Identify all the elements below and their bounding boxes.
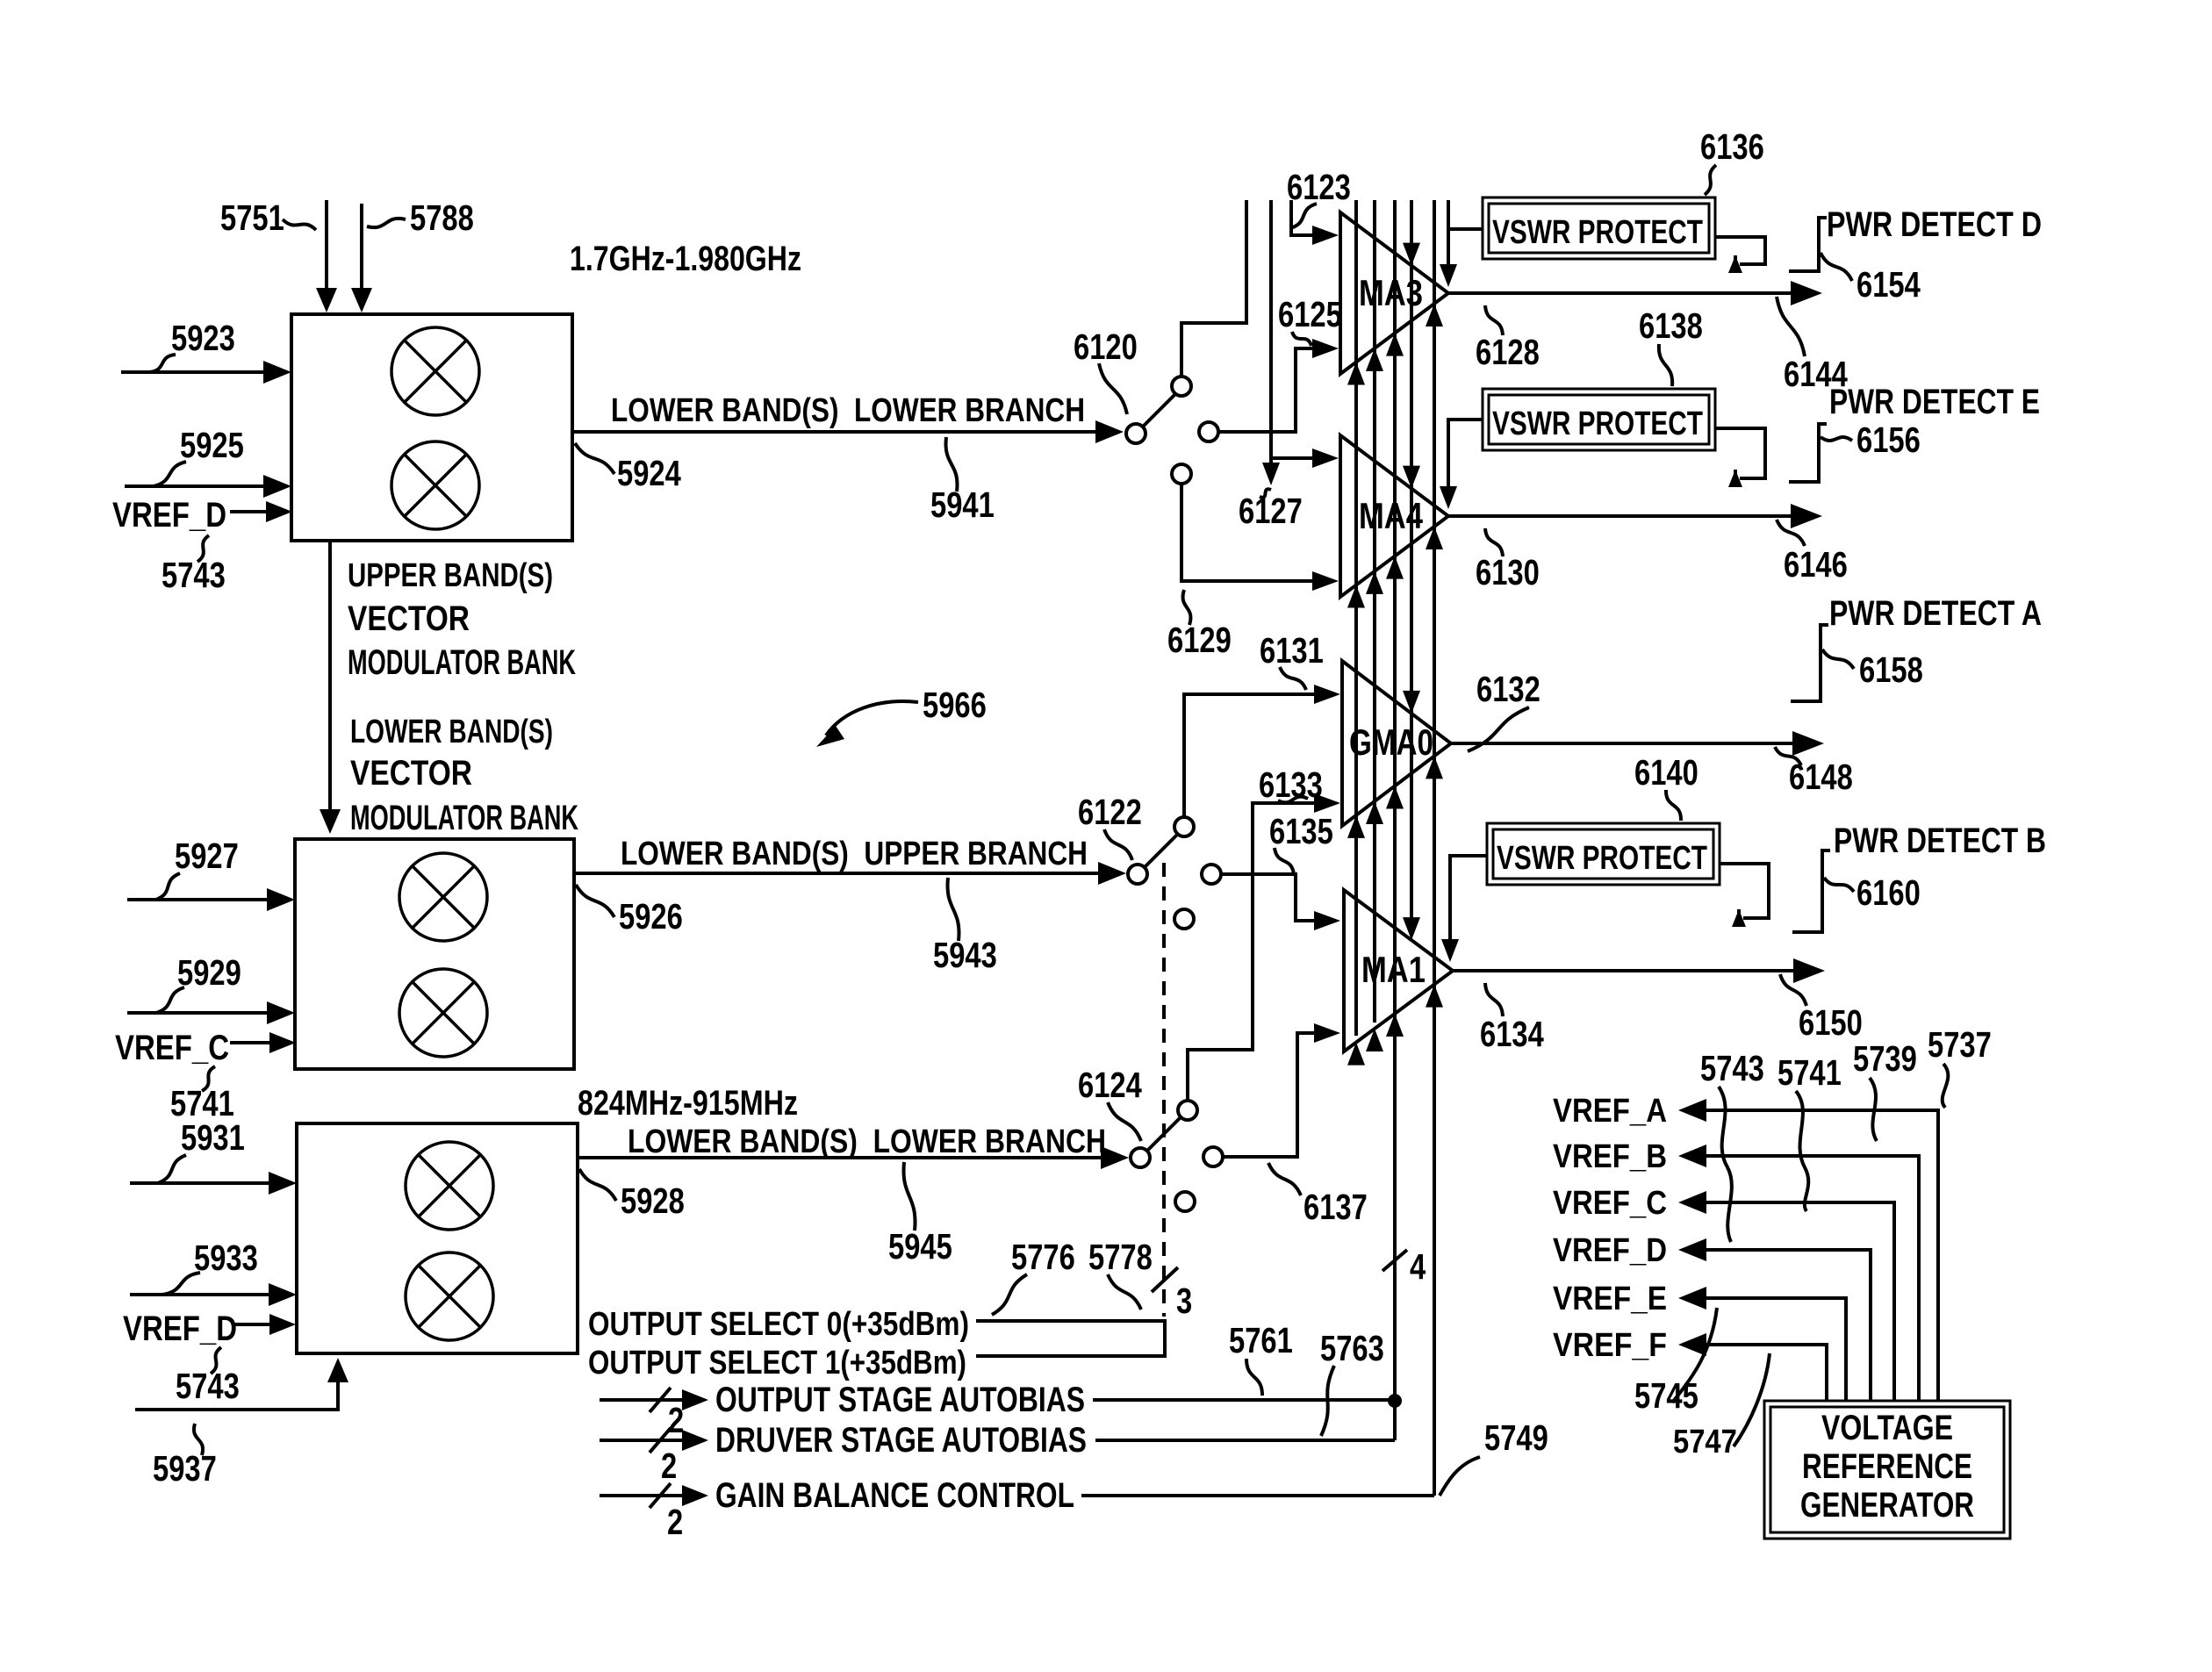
wire switch 6124 upper throw to GMA0 input 2 [1188,793,1340,1101]
block VSWR PROTECT 6136 [1483,197,1715,259]
label 5941 [930,437,995,525]
label 5926 [576,885,683,936]
svg-text:5743: 5743 [1700,1048,1764,1088]
svg-text:5937: 5937 [153,1448,217,1489]
label 6148 [1775,747,1853,797]
svg-text:5776: 5776 [1011,1237,1075,1277]
svg-text:5737: 5737 [1928,1024,1992,1065]
svg-text:6160: 6160 [1856,872,1921,913]
block 5922 UPPER BAND(S) VECTOR MODULATOR BANK [291,314,572,541]
label 5749 [1440,1417,1548,1496]
wire VSWR PROTECT 6140 output loop [1720,864,1769,927]
wire VREF_D input [230,501,292,522]
svg-text:6137: 6137 [1303,1187,1368,1227]
svg-text:6132: 6132 [1476,669,1540,709]
label 5745 [1634,1308,1717,1416]
svg-text:MODULATOR BANK: MODULATOR BANK [348,643,576,682]
switch 6120 pole circle [1126,424,1145,443]
label 5925 [154,425,244,486]
svg-text:6140: 6140 [1634,752,1698,793]
label 5931 [158,1117,245,1183]
wire VSWR PROTECT 6136 output loop [1715,237,1765,273]
svg-text:PWR DETECT D: PWR DETECT D [1827,205,2042,244]
svg-text:5927: 5927 [175,836,239,876]
svg-text:6138: 6138 [1639,305,1703,346]
label 5741 [170,1066,234,1123]
svg-text:6154: 6154 [1856,264,1921,305]
svg-text:5788: 5788 [410,197,474,238]
svg-text:5741: 5741 [1777,1052,1842,1093]
symbol PWR DETECT B (step waveform) [1792,850,1830,932]
svg-text:5943: 5943 [933,935,997,975]
label UPPER BAND(S) VECTOR MODULATOR BANK [348,557,576,682]
mixer (lower) in middle bank [399,969,487,1057]
svg-text:GAIN BALANCE CONTROL: GAIN BALANCE CONTROL [715,1476,1074,1515]
svg-text:3: 3 [1176,1281,1192,1321]
switch 6120 blade (diagonal) [1143,393,1176,427]
label 6160 [1824,872,1921,913]
svg-text:1.7GHz-1.980GHz: 1.7GHz-1.980GHz [570,240,801,278]
svg-text:6133: 6133 [1259,764,1323,805]
wire MA3 input 1 from bus [1291,200,1339,245]
svg-text:5749: 5749 [1484,1417,1548,1458]
wire GMA0 output [1451,731,1824,756]
label 2 (gain balance) [667,1502,683,1542]
label VREF_D [1553,1232,1667,1269]
svg-text:824MHz-915MHz: 824MHz-915MHz [578,1084,798,1123]
label 5945 [888,1162,952,1267]
switch 6120 upper throw circle [1172,377,1191,396]
label OUTPUT STAGE AUTOBIAS [715,1381,1085,1419]
label 5778 [1088,1237,1153,1310]
bus slash 4 [1382,1250,1407,1271]
label 5924 [575,443,681,493]
switch 6120 lower throw circle [1172,464,1191,484]
label VREF_D [112,496,226,535]
label 5751 [220,197,316,238]
amplifier GMA0 [1342,661,1451,826]
label 6130 [1476,528,1540,592]
label VREF_E [1553,1281,1667,1317]
wire VREF_D input (bottom bank) [235,1314,296,1335]
svg-text:5941: 5941 [930,484,995,525]
label 5966 (figure pointer) [816,685,987,747]
svg-text:2: 2 [661,1446,677,1486]
wire VREF_F from voltage reference generator [1678,1333,1827,1401]
label 6138 [1639,305,1703,386]
svg-text:VREF_D: VREF_D [123,1310,237,1348]
label 5743 (vref conductor) [1700,1048,1764,1242]
svg-text:MA3: MA3 [1359,272,1423,313]
wire switch 6122 upper throw to GMA0 input 1 [1184,685,1340,817]
switch 6122 output circle [1202,865,1221,884]
wire input 5931 [130,1172,297,1195]
label 5761 [1229,1320,1293,1396]
label 5937 [153,1424,217,1489]
wire switch 6122 output to MA1 input 1 [1221,874,1340,930]
svg-text:VSWR PROTECT: VSWR PROTECT [1492,405,1703,442]
label 1.7GHz-1.980GHz [570,240,801,278]
wire VREF_A from voltage reference generator [1678,1099,1938,1401]
label 6122 [1078,792,1142,860]
bus wire (output stage autobias B) with arrows into amp bottoms [1366,200,1383,1051]
wire MA4 output [1448,504,1822,528]
svg-text:5933: 5933 [194,1238,258,1278]
label 6127 [1239,489,1303,531]
wire GAIN BALANCE CONTROL input (2-wire) [600,1483,708,1508]
label 5923 [149,318,235,372]
amplifier MA4 [1340,435,1448,597]
label 824MHz-915MHz [578,1084,798,1123]
label VREF_B [1553,1138,1667,1175]
wire LOWER BAND(S) LOWER BRANCH (bank3 to switch 6124) [578,1146,1129,1169]
wire OUTPUT STAGE AUTOBIAS to bus junction [1093,1394,1402,1408]
wire input 5923 [121,361,291,384]
label 2 (druver stage) [661,1446,677,1486]
svg-text:PWR DETECT E: PWR DETECT E [1829,383,2040,421]
label 5739 (vref conductor) [1853,1038,1917,1141]
label OUTPUT SELECT 0(+35dBm) [588,1306,969,1343]
input 5751 (down arrow into bank top) [316,200,337,312]
label 6156 [1821,420,1921,460]
wire VSWR PROTECT 6140 tap on MA1 output [1441,856,1487,962]
svg-text:6150: 6150 [1799,1002,1863,1043]
svg-text:LOWER BAND(S): LOWER BAND(S) [350,714,553,750]
label DRUVER STAGE AUTOBIAS [715,1421,1087,1460]
svg-text:6127: 6127 [1239,491,1303,531]
svg-text:5743: 5743 [162,555,226,595]
svg-text:MODULATOR BANK: MODULATOR BANK [350,799,578,837]
label PWR DETECT A [1829,594,2042,633]
svg-text:6156: 6156 [1856,420,1921,460]
label PWR DETECT D [1827,205,2042,244]
svg-text:VECTOR: VECTOR [350,754,472,793]
wire switch 6120 upper throw to bus [1181,200,1246,377]
switch 6124 blade (diagonal) [1147,1117,1181,1151]
wire VREF_D from voltage reference generator [1678,1238,1871,1401]
svg-text:MA4: MA4 [1359,495,1424,536]
label PWR DETECT B [1834,822,2046,860]
label VREF_C [115,1029,229,1067]
label 6132 [1468,669,1540,751]
svg-text:5928: 5928 [621,1180,685,1221]
block VOLTAGE REFERENCE GENERATOR [1764,1401,2010,1539]
svg-text:LOWER BAND(S) LOWER BRANCH: LOWER BAND(S) LOWER BRANCH [628,1123,1106,1160]
wire 5937 input (up arrow into bank bottom) [135,1358,348,1410]
wire input 5925 [125,475,291,498]
label LOWER BAND(S) LOWER BRANCH (bottom) [628,1123,1106,1160]
svg-text:6124: 6124 [1078,1065,1142,1105]
label LOWER BAND(S) UPPER BRANCH [621,836,1088,872]
symbol PWR DETECT E (step waveform) [1789,424,1827,482]
switch 6124 output circle [1203,1147,1223,1166]
svg-text:2: 2 [667,1502,683,1542]
label 6140 [1634,752,1698,821]
label 6125 [1278,294,1342,346]
symbol PWR DETECT D (step waveform) [1789,218,1827,271]
input 5788 (down arrow into bank top) [351,204,372,312]
wire input 5929 [127,1001,295,1024]
label 6129 [1167,590,1232,660]
svg-text:DRUVER STAGE AUTOBIAS: DRUVER STAGE AUTOBIAS [715,1421,1087,1460]
dashed control line for switches (3-wire) [1162,863,1166,1317]
svg-text:6135: 6135 [1269,811,1333,851]
svg-text:5739: 5739 [1853,1038,1917,1079]
svg-text:LOWER BAND(S) UPPER BRANCH: LOWER BAND(S) UPPER BRANCH [621,836,1088,872]
svg-text:UPPER BAND(S): UPPER BAND(S) [348,557,553,594]
svg-text:VREF_F: VREF_F [1553,1327,1667,1364]
svg-text:OUTPUT SELECT 1(+35dBm): OUTPUT SELECT 1(+35dBm) [588,1345,966,1381]
gain balance control bus (vertical) with arrows under outputs [1426,200,1443,1496]
bus slash 3 [1152,1267,1178,1292]
wire VREF_C from voltage reference generator [1678,1191,1894,1401]
wire output select bus [976,1321,1165,1356]
label 4 [1410,1246,1426,1287]
wire MA3 output [1448,281,1822,305]
label 6154 [1821,253,1921,305]
svg-text:5924: 5924 [617,453,681,493]
label 6135 [1269,811,1333,874]
svg-text:OUTPUT STAGE AUTOBIAS: OUTPUT STAGE AUTOBIAS [715,1381,1085,1419]
label VREF_D (bottom) [123,1310,237,1348]
svg-text:REFERENCE: REFERENCE [1802,1447,1972,1486]
svg-text:VREF_C: VREF_C [1553,1185,1667,1222]
svg-text:6129: 6129 [1167,620,1232,660]
label 6144 [1777,297,1848,394]
amplifier MA3 [1340,212,1448,374]
block VSWR PROTECT 6140 [1487,823,1720,885]
svg-text:6130: 6130 [1476,552,1540,592]
svg-text:5945: 5945 [888,1226,952,1267]
label 6150 [1780,974,1863,1043]
label 6123 [1287,167,1351,228]
label 5929 [156,952,241,1013]
svg-text:6136: 6136 [1700,126,1764,167]
label 5737 (vref conductor) [1928,1024,1992,1108]
wire VSWR PROTECT 6138 output loop [1715,428,1765,487]
svg-text:VREF_C: VREF_C [115,1029,229,1067]
svg-text:6158: 6158 [1859,649,1923,690]
bus wire (output stage autobias A) with arrows into amp bottoms [1347,200,1365,1066]
label 5747 [1673,1353,1770,1460]
block 5928b LOWER BAND(S) VECTOR MODULATOR BANK (bottom) [297,1123,578,1353]
wire switch 6120 output to MA3 input 2 [1218,339,1339,432]
svg-text:VSWR PROTECT: VSWR PROTECT [1497,840,1707,877]
label 3 [1176,1281,1192,1321]
wire LOWER BAND(S) LOWER BRANCH (bank1 to switch 6120) [572,420,1124,443]
svg-text:VREF_E: VREF_E [1553,1281,1667,1317]
svg-text:5751: 5751 [220,197,284,238]
label 5933 [162,1238,258,1295]
label VREF_C [1553,1185,1667,1222]
svg-text:PWR DETECT A: PWR DETECT A [1829,594,2042,633]
svg-text:6122: 6122 [1078,792,1142,832]
wire switch 6120 lower throw to MA4 input 2 [1181,484,1339,591]
block VSWR PROTECT 6138 [1483,389,1715,450]
label LOWER BAND(S) VECTOR MODULATOR BANK [350,714,578,837]
svg-text:5926: 5926 [619,896,683,936]
svg-text:5761: 5761 [1229,1320,1293,1360]
mixer (lower) in bottom bank [406,1252,493,1340]
label 6134 [1480,983,1544,1054]
switch 6122 upper throw circle [1174,817,1194,836]
label 5741 (vref conductor) [1777,1052,1842,1211]
mixer (upper) in bank 5922 [391,327,479,415]
wire switch 6124 output to MA1 input 2 [1223,1023,1340,1157]
label 6158 [1822,649,1923,690]
amplifier MA1 [1344,890,1453,1051]
wire VSWR PROTECT 6136 tap on MA3 output [1440,200,1483,287]
label VREF_A [1553,1093,1667,1130]
label 6133 [1259,764,1323,805]
svg-text:GMA0: GMA0 [1349,721,1433,763]
switch 6122 blade (diagonal) [1145,834,1178,867]
switch 6120 output circle [1199,422,1218,441]
svg-text:OUTPUT SELECT 0(+35dBm): OUTPUT SELECT 0(+35dBm) [588,1306,969,1343]
svg-text:5931: 5931 [181,1117,245,1158]
wire GAIN BALANCE CONTROL to bus [1081,1494,1434,1497]
label 5743 (bottom) [176,1347,240,1406]
svg-text:6131: 6131 [1260,630,1324,671]
svg-text:5763: 5763 [1320,1328,1384,1368]
label 6146 [1777,520,1848,585]
wire LOWER BAND(S) UPPER BRANCH (bank2 to switch 6122) [574,862,1126,885]
wire MA1 output [1453,958,1825,983]
svg-text:5925: 5925 [180,425,244,465]
label LOWER BAND(S) LOWER BRANCH (top) [611,392,1085,429]
svg-text:GENERATOR: GENERATOR [1800,1486,1974,1525]
mixer (lower) in bank 5922 [391,441,479,529]
svg-text:5747: 5747 [1673,1424,1737,1460]
wire bus to MA4 input 1 (with stub arrow) [1262,200,1339,485]
symbol PWR DETECT A (step waveform) [1791,625,1828,701]
label 6120 [1074,327,1138,414]
wire input 5933 [130,1283,297,1306]
switch 6124 lower throw circle [1175,1192,1195,1211]
bus wire with arrows onto amp top edges [1403,200,1420,940]
label 5763 [1320,1328,1384,1436]
label GAIN BALANCE CONTROL [715,1476,1074,1515]
wire DRUVER STAGE AUTOBIAS input (2-wire) [600,1428,708,1453]
bus wire (autobias bus, 4-wire) down to junction [1386,200,1404,1440]
svg-text:VREF_A: VREF_A [1553,1093,1667,1130]
svg-text:VECTOR: VECTOR [348,599,470,638]
wire VREF_B from voltage reference generator [1678,1145,1919,1401]
wire DRUVER STAGE AUTOBIAS to bus junction [1095,1439,1395,1442]
switch 6124 upper throw circle [1178,1101,1197,1120]
label 2 (output stage) [668,1400,684,1440]
svg-text:2: 2 [668,1400,684,1440]
svg-text:5966: 5966 [923,685,987,725]
block 5925b LOWER BAND(S) VECTOR MODULATOR BANK (middle) [295,839,574,1069]
svg-text:6146: 6146 [1784,544,1848,585]
label 6131 [1260,630,1324,690]
label PWR DETECT E [1829,383,2040,421]
svg-text:VSWR PROTECT: VSWR PROTECT [1492,214,1703,251]
mixer (upper) in bottom bank [406,1142,493,1230]
label 5776 [992,1237,1075,1315]
label 5943 [933,878,997,975]
wire VREF_E from voltage reference generator [1678,1287,1846,1401]
switch 6122 lower throw circle [1174,909,1194,929]
wire bank1 to bank2 (down arrow) [320,541,341,834]
svg-text:6125: 6125 [1278,294,1342,334]
svg-text:4: 4 [1410,1246,1426,1287]
label 5788 [367,197,474,238]
label 5928 [579,1169,685,1221]
label 6137 [1268,1163,1368,1227]
svg-text:6120: 6120 [1074,327,1138,367]
svg-text:LOWER BAND(S) LOWER BRANCH: LOWER BAND(S) LOWER BRANCH [611,392,1085,429]
wire input 5927 [127,888,295,911]
svg-text:6128: 6128 [1476,332,1540,372]
switch 6122 pole circle [1128,865,1147,884]
svg-text:6123: 6123 [1287,167,1351,207]
switch 6124 pole circle [1131,1148,1150,1167]
svg-text:PWR DETECT B: PWR DETECT B [1834,822,2046,860]
svg-text:VREF_D: VREF_D [112,496,226,535]
svg-text:VREF_D: VREF_D [1553,1232,1667,1269]
wire OUTPUT STAGE AUTOBIAS input (2-wire) [600,1388,708,1412]
svg-text:5929: 5929 [177,952,241,993]
svg-text:VOLTAGE: VOLTAGE [1821,1409,1953,1447]
label 5743 [162,535,226,595]
wire VREF_C input [230,1032,296,1053]
label 6136 [1700,126,1764,195]
label 6128 [1476,305,1540,372]
wire VSWR PROTECT 6138 tap on MA4 output [1440,420,1483,509]
label 6124 [1078,1065,1142,1141]
svg-text:VREF_B: VREF_B [1553,1138,1667,1175]
svg-text:5923: 5923 [171,318,235,358]
label 5927 [156,836,239,900]
svg-text:6134: 6134 [1480,1014,1544,1054]
label VREF_F [1553,1327,1667,1364]
svg-text:5778: 5778 [1088,1237,1153,1277]
label OUTPUT SELECT 1(+35dBm) [588,1345,966,1381]
svg-text:5743: 5743 [176,1366,240,1406]
mixer (upper) in middle bank [399,853,487,941]
